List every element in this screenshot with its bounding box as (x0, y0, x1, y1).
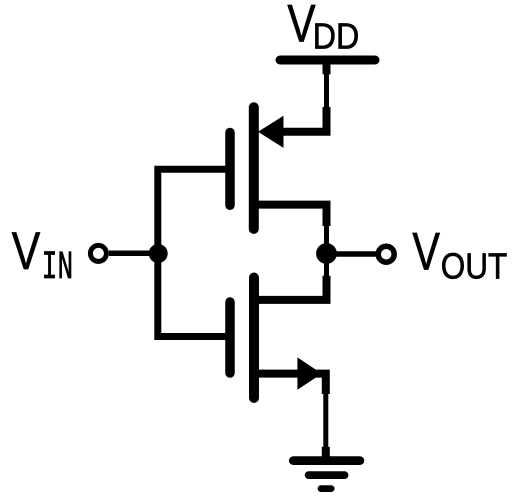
svg-text:OUT: OUT (441, 246, 508, 287)
net label VOUT (412, 223, 507, 287)
wire input gate bus (PMOS gate lead, vertical run, NMOS gate lead) (158, 169, 232, 336)
svg-text:IN: IN (42, 246, 73, 291)
net label VDD (287, 0, 359, 57)
wire output node to NMOS drain (324, 254, 329, 300)
source arrow (points away from channel) (297, 357, 321, 389)
source lead with corner (252, 374, 326, 394)
drain lead with corner (252, 205, 327, 226)
channel line (249, 278, 259, 399)
power rail VDD (280, 56, 375, 65)
wire VIN terminal to input node (109, 250, 158, 256)
terminal VOUT (open circle) (378, 246, 394, 262)
svg-text:V: V (287, 0, 316, 54)
gate line (225, 302, 235, 373)
drain lead with corner (252, 276, 327, 300)
junction input node (149, 244, 168, 263)
wire NMOS source to ground (323, 392, 328, 459)
wire PMOS drain to output node (324, 205, 329, 254)
source arrow (points into channel) (258, 116, 284, 148)
channel line (249, 107, 259, 229)
svg-text:DD: DD (313, 16, 360, 57)
ground (293, 461, 360, 489)
wire VDD rail to PMOS source (324, 62, 329, 130)
svg-text:V: V (12, 222, 41, 281)
source lead with corner (282, 107, 327, 132)
pmos transistor Q1 (230, 107, 327, 229)
net label VIN (12, 222, 73, 291)
nmos transistor Q2 (230, 276, 327, 398)
svg-text:V: V (412, 223, 440, 282)
wire output node to VOUT terminal (327, 251, 377, 257)
gate line (225, 133, 235, 206)
terminal VIN (open circle) (90, 245, 106, 261)
junction output node (316, 243, 337, 264)
